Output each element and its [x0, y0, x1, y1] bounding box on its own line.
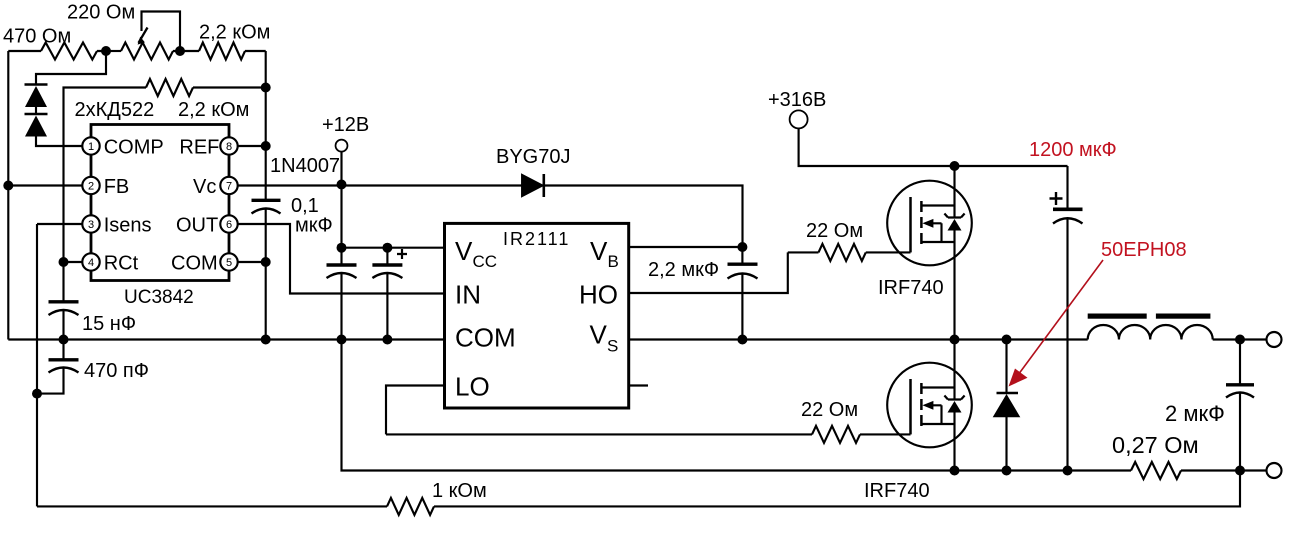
red arrowhead — [1009, 369, 1028, 387]
svg-text:50EPH08: 50EPH08 — [1101, 239, 1187, 261]
svg-text:2,2 мкФ: 2,2 мкФ — [648, 259, 719, 281]
wire Q2 drain — [953, 340, 955, 388]
svg-text:22 Ом: 22 Ом — [806, 220, 863, 242]
pin 6 circle — [220, 215, 237, 232]
svg-text:1200 мкФ: 1200 мкФ — [1029, 139, 1117, 161]
wire REF cap to COM bus — [265, 210, 267, 340]
wire +12В down — [340, 152, 342, 264]
svg-text:LO: LO — [455, 372, 490, 402]
resistor 22 Ом lower — [812, 426, 860, 443]
node RCt junction dot — [59, 257, 69, 267]
node cap2 junction dot — [382, 243, 392, 253]
wire pot junction down to diodes — [36, 51, 106, 85]
resistor 2,2 кОм top — [199, 43, 245, 60]
svg-text:OUT: OUT — [176, 215, 218, 237]
diode VD2 КД522 — [25, 113, 48, 116]
svg-text:220 Ом: 220 Ом — [67, 2, 135, 24]
svg-text:2хКД522: 2хКД522 — [75, 99, 155, 121]
inductor L1 coil — [1088, 325, 1213, 340]
svg-text:COM: COM — [455, 323, 516, 353]
terminal output bottom — [1267, 463, 1282, 478]
node COM pin junction dot — [261, 257, 271, 267]
capacitor 2 мкФ plate — [1226, 383, 1254, 386]
svg-text:15 нФ: 15 нФ — [82, 313, 136, 335]
terminal +316В — [790, 110, 808, 128]
wire 470 пФ to Isens column — [37, 369, 64, 394]
svg-text:2,2 кОм: 2,2 кОм — [178, 99, 249, 121]
node bottom dot diode — [1002, 466, 1012, 476]
capacitor C3 arc — [327, 273, 357, 278]
resistor 22 Ом upper — [819, 244, 866, 261]
wire LO gate row — [386, 433, 911, 435]
wire Isens stub — [37, 223, 82, 225]
svg-text:470 пФ: 470 пФ — [84, 360, 149, 382]
svg-text:мкФ: мкФ — [295, 215, 333, 237]
svg-text:REF: REF — [179, 137, 219, 159]
capacitor 2,2 мкФ arc — [728, 274, 758, 279]
svg-text:Vc: Vc — [193, 176, 216, 198]
svg-text:CC: CC — [473, 252, 498, 271]
resistor 470 Ом — [41, 43, 97, 60]
capacitor 2 мкФ column — [1239, 340, 1241, 384]
svg-text:0,27 Ом: 0,27 Ом — [1112, 432, 1199, 458]
transistor Q1 IRF740 upper — [887, 181, 972, 266]
capacitor 470 пФ column — [62, 340, 64, 359]
wire VCC row — [342, 247, 445, 249]
svg-text:4: 4 — [88, 257, 94, 269]
wire C4 to bus — [386, 274, 388, 340]
wire 2,2 мкФ to VS — [741, 275, 743, 340]
wire LO pin out — [386, 386, 445, 435]
svg-text:8: 8 — [226, 141, 232, 153]
terminal output top — [1267, 332, 1282, 347]
potentiometer wiper arrow — [139, 28, 148, 43]
svg-text:RCt: RCt — [104, 253, 139, 275]
capacitor 15 нФ arc — [49, 310, 79, 315]
svg-text:IN: IN — [455, 280, 481, 310]
svg-text:V: V — [590, 320, 608, 350]
capacitor 2,2 мкФ column — [741, 247, 743, 264]
node FB junction dot — [3, 181, 13, 191]
pin 7 circle — [220, 177, 237, 194]
node output bottom dot — [1235, 466, 1245, 476]
diode 50EPH08 — [1005, 340, 1007, 393]
wire FB stub — [8, 184, 82, 186]
svg-text:2: 2 — [88, 181, 94, 193]
wire resistor right to REF column — [193, 86, 266, 88]
svg-text:5: 5 — [226, 257, 232, 269]
pin 5 circle — [220, 253, 237, 270]
wire 15 нФ to bus — [62, 311, 64, 340]
svg-text:IRF740: IRF740 — [878, 277, 944, 299]
capacitor C3 plate — [327, 263, 357, 266]
svg-text:V: V — [455, 236, 473, 266]
wire Vc row to bootstrap column — [238, 186, 743, 248]
capacitor 1200 мкФ plus — [1050, 192, 1063, 205]
svg-text:COM: COM — [171, 253, 218, 275]
resistor 0,27 Ом — [1131, 462, 1181, 479]
svg-text:+12В: +12В — [322, 114, 369, 136]
potentiometer 220 Ом body — [121, 43, 173, 60]
wire resistor left to RCt column — [64, 88, 147, 263]
node diode top dot — [1002, 335, 1012, 345]
svg-text:2,2 кОм: 2,2 кОм — [199, 22, 270, 44]
capacitor 2 мкФ arc — [1226, 393, 1254, 398]
node bus dot C4 — [382, 335, 392, 345]
svg-text:V: V — [590, 236, 608, 266]
svg-text:UC3842: UC3842 — [124, 287, 194, 308]
node bus dot C3 — [337, 335, 347, 345]
capacitor 0,1 мкФ REF arc — [252, 209, 281, 214]
red arrow line — [1018, 260, 1103, 375]
wire Isens vertical down — [36, 224, 38, 506]
svg-text:IR2111: IR2111 — [503, 229, 570, 249]
wire REF vertical column — [265, 51, 267, 199]
pin 8 circle — [220, 137, 237, 154]
svg-text:3: 3 — [88, 219, 94, 231]
svg-text:+316В: +316В — [768, 89, 826, 111]
wire RCt stub — [64, 261, 83, 263]
wire COM pin5 stub — [238, 261, 266, 263]
svg-text:BYG70J: BYG70J — [496, 146, 570, 168]
potentiometer wiper loop — [142, 12, 181, 52]
wire diodes to pin COMP — [36, 137, 82, 147]
pin 1 circle — [82, 137, 99, 154]
svg-text:6: 6 — [226, 219, 232, 231]
svg-text:COMP: COMP — [104, 137, 164, 159]
wire VB pin stub — [629, 246, 743, 248]
node VCC junction dot — [337, 243, 347, 253]
wire between diodes — [35, 107, 37, 114]
svg-text:IRF740: IRF740 — [864, 480, 930, 502]
node top rail drain dot — [950, 161, 960, 171]
svg-text:470 Ом: 470 Ом — [3, 26, 71, 48]
capacitor C4 electrolytic column — [386, 248, 388, 265]
capacitor 0,1 мкФ REF plate — [252, 199, 281, 202]
pin 2 circle — [82, 177, 99, 194]
terminal +12В — [336, 140, 348, 152]
capacitor 470 пФ plate — [49, 358, 79, 361]
wire HO to gate resistor — [629, 252, 788, 293]
wire Q1 source to mid — [953, 242, 955, 340]
op-amp U1 UC3842 box — [91, 125, 229, 281]
wire top-left horizontal row — [8, 50, 265, 52]
svg-text:7: 7 — [226, 181, 232, 193]
node output top dot — [1235, 335, 1245, 345]
ground bus COM — [8, 338, 444, 340]
svg-text:FB: FB — [104, 176, 130, 198]
svg-text:B: B — [608, 252, 619, 271]
svg-text:2 мкФ: 2 мкФ — [1165, 401, 1225, 426]
capacitor C4 plate — [372, 263, 402, 266]
svg-text:S: S — [607, 337, 618, 356]
diode BYG70J — [522, 175, 543, 197]
svg-text:Isens: Isens — [104, 215, 152, 237]
capacitor 470 пФ arc — [49, 368, 79, 373]
node bottom dot Q2 — [950, 466, 960, 476]
node Isens junction dot — [32, 389, 42, 399]
transistor Q2 IRF740 lower — [887, 363, 972, 448]
capacitor 1200 мкФ arc — [1053, 218, 1083, 223]
inductor core bar 1 — [1088, 314, 1147, 319]
capacitor 2,2 мкФ plate — [728, 263, 758, 266]
wire 2 мкФ down — [1239, 394, 1241, 471]
node pot-right junction dot — [175, 46, 185, 56]
node mid rail dot — [950, 335, 960, 345]
wire REF pin stub — [238, 145, 266, 147]
node bus dot 15nF — [59, 335, 69, 345]
capacitor C4 arc — [372, 273, 402, 278]
capacitor 15 нФ plate — [49, 300, 79, 303]
capacitor C4 plus sign — [397, 249, 407, 259]
svg-text:HO: HO — [579, 280, 618, 310]
wire Q2 source — [953, 424, 955, 471]
svg-text:1 кОм: 1 кОм — [432, 480, 487, 502]
node VS cap junction dot — [737, 335, 747, 345]
bottom power rail — [342, 340, 1268, 471]
wire coil to output — [1213, 338, 1267, 340]
wire Q1 drain — [953, 166, 955, 206]
wire left vertical rail — [7, 51, 9, 340]
resistor 2,2 кОм REF-RCt — [146, 79, 193, 96]
node pot-left junction dot — [101, 46, 111, 56]
wire unused pin stub — [629, 384, 648, 386]
node VB junction dot — [737, 242, 747, 252]
capacitor 1200 мкФ plate — [1053, 208, 1083, 212]
capacitor 1200 мкФ column — [1066, 166, 1068, 208]
wire +316В feed — [799, 128, 1068, 166]
wire 1200 мкФ down — [1066, 219, 1068, 471]
svg-text:1: 1 — [88, 141, 94, 153]
node REF pin junction dot — [261, 141, 271, 151]
node bus dot REF cap — [261, 335, 271, 345]
capacitor 15 нФ column — [62, 262, 64, 301]
diode VD1 КД522 — [25, 83, 48, 86]
wire OUT to IN — [238, 224, 445, 294]
op-amp U2 IR2111 box — [445, 223, 629, 408]
node bottom dot cap — [1063, 466, 1073, 476]
wire VS rail — [629, 338, 1088, 340]
inductor core bar 2 — [1156, 314, 1211, 319]
pin 3 circle — [82, 215, 99, 232]
potentiometer wiper arrowhead — [138, 37, 145, 45]
pin 4 circle — [82, 253, 99, 270]
resistor 1 кОм — [387, 498, 434, 515]
wire upper gate row — [788, 251, 911, 253]
svg-text:1N4007: 1N4007 — [270, 155, 340, 177]
wire C3 to bus — [340, 274, 342, 340]
svg-text:22 Ом: 22 Ом — [801, 399, 858, 421]
wire 106-121 — [106, 50, 121, 52]
node REF resistor junction dot — [261, 83, 271, 93]
wire feedback bottom — [37, 471, 1240, 507]
node +12В junction dot — [337, 180, 347, 190]
